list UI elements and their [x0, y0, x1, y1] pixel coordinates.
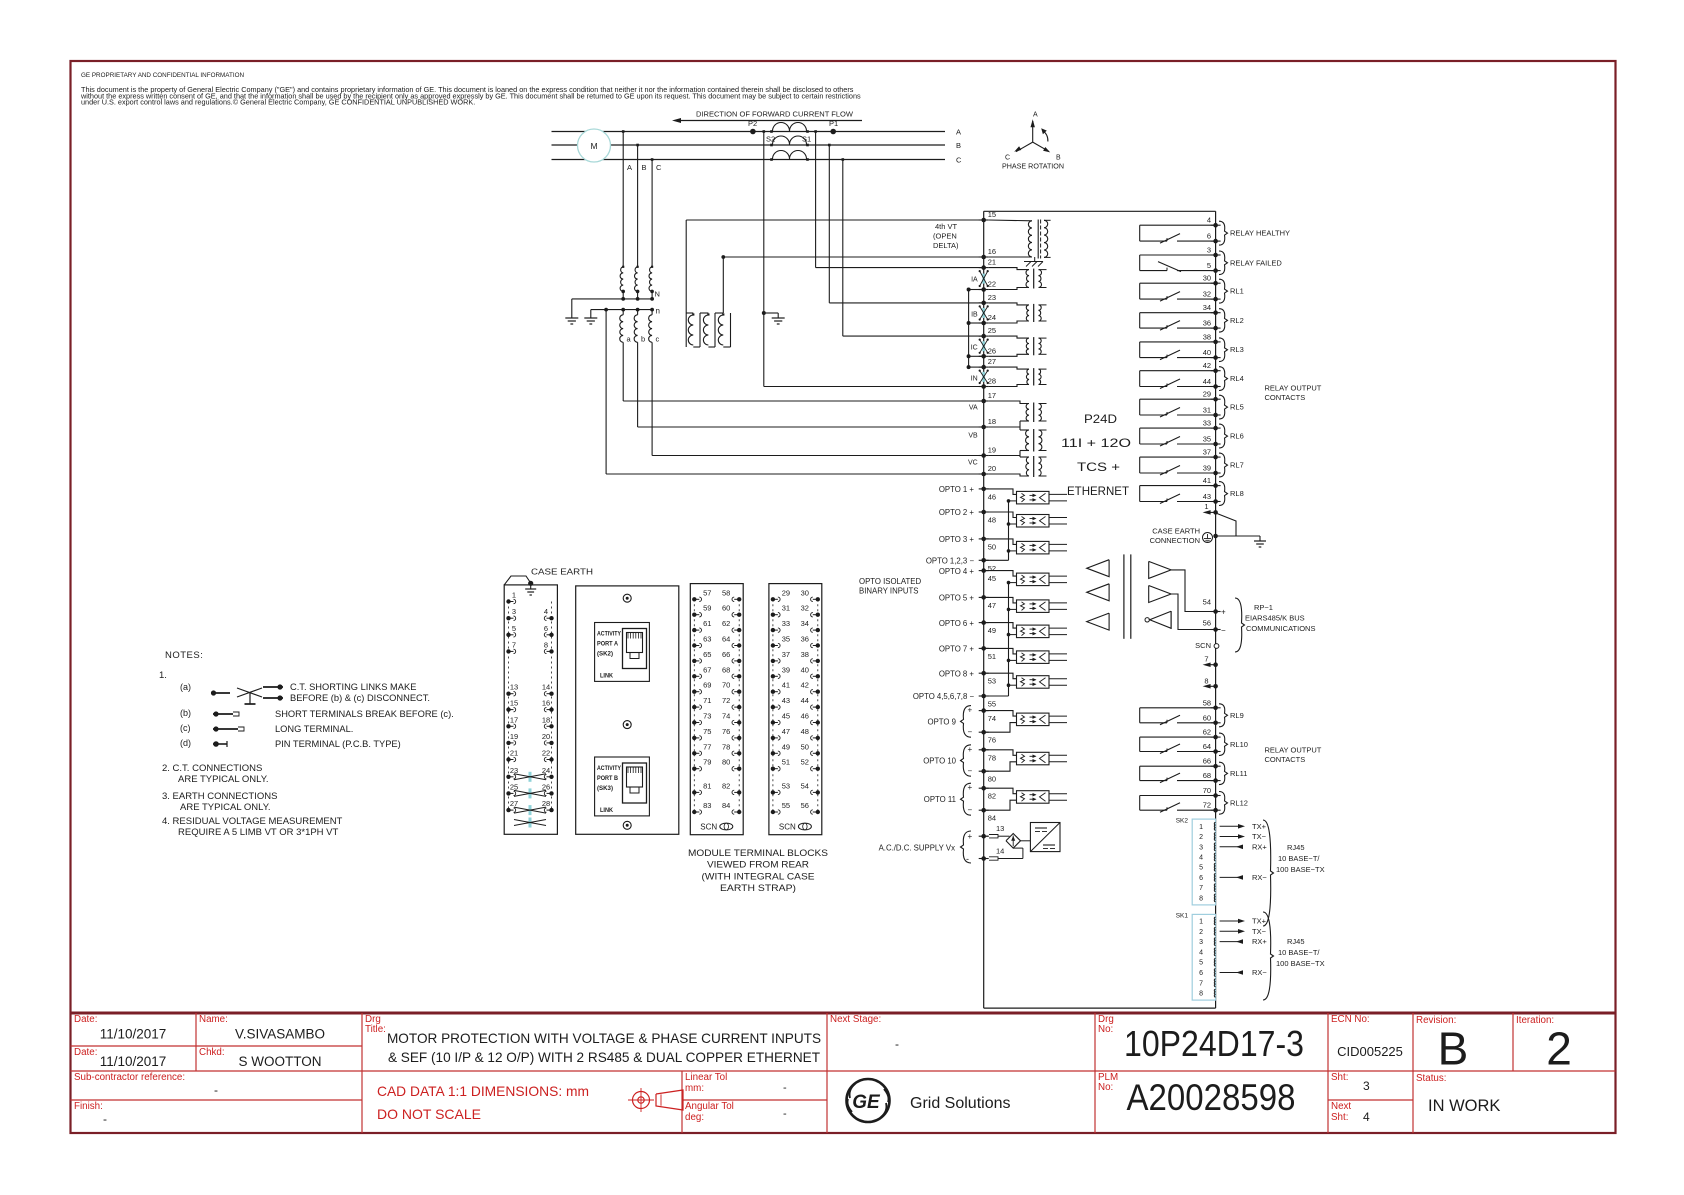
svg-text:31: 31 — [782, 604, 790, 613]
svg-text:46: 46 — [801, 712, 809, 721]
svg-text:SCN: SCN — [779, 823, 796, 832]
svg-text:ECN No:: ECN No: — [1331, 1014, 1370, 1025]
svg-text:CONNECTION: CONNECTION — [1150, 536, 1200, 545]
svg-text:Sub-contractor reference:: Sub-contractor reference: — [74, 1072, 185, 1083]
svg-text:71: 71 — [703, 696, 711, 705]
svg-text:-: - — [214, 1083, 218, 1097]
svg-text:7: 7 — [1199, 885, 1203, 892]
svg-text:Date:: Date: — [74, 1014, 97, 1025]
svg-text:8: 8 — [544, 640, 548, 649]
svg-text:3: 3 — [1363, 1079, 1370, 1093]
svg-text:61: 61 — [703, 619, 711, 628]
svg-text:C: C — [956, 156, 962, 165]
svg-text:Linear Tol: Linear Tol — [685, 1072, 727, 1083]
svg-text:−: − — [968, 728, 973, 737]
svg-text:SK2: SK2 — [1176, 818, 1189, 825]
svg-text:30: 30 — [1203, 274, 1211, 283]
svg-text:33: 33 — [782, 619, 790, 628]
svg-text:1: 1 — [1199, 919, 1203, 926]
svg-text:10 BASE−T/: 10 BASE−T/ — [1278, 948, 1320, 957]
svg-text:49: 49 — [988, 626, 996, 635]
svg-text:deg:: deg: — [685, 1112, 704, 1123]
svg-text:VA: VA — [969, 405, 978, 412]
svg-text:13: 13 — [996, 824, 1004, 833]
svg-text:21: 21 — [988, 258, 996, 267]
svg-text:63: 63 — [703, 635, 711, 644]
svg-text:48: 48 — [988, 516, 996, 525]
svg-text:64: 64 — [722, 635, 730, 644]
svg-text:GE: GE — [852, 1092, 881, 1113]
svg-text:RX+: RX+ — [1252, 842, 1267, 851]
svg-text:5: 5 — [1207, 261, 1211, 270]
svg-text:24: 24 — [542, 766, 550, 775]
svg-text:29: 29 — [1203, 390, 1211, 399]
svg-text:68: 68 — [722, 665, 730, 674]
svg-text:Date:: Date: — [74, 1047, 97, 1058]
svg-text:(c): (c) — [180, 723, 191, 733]
svg-text:Grid Solutions: Grid Solutions — [910, 1095, 1011, 1112]
svg-text:EARTH STRAP): EARTH STRAP) — [720, 883, 796, 893]
svg-text:66: 66 — [1203, 757, 1211, 766]
svg-text:3. EARTH CONNECTIONS: 3. EARTH CONNECTIONS — [162, 791, 277, 802]
svg-text:50: 50 — [988, 542, 996, 551]
svg-text:4: 4 — [1199, 855, 1203, 862]
svg-text:B: B — [642, 163, 647, 172]
svg-text:RL5: RL5 — [1230, 403, 1244, 412]
svg-text:33: 33 — [1203, 419, 1211, 428]
svg-text:−: − — [968, 806, 973, 815]
svg-text:OPTO 1,2,3 −: OPTO 1,2,3 − — [926, 557, 975, 566]
svg-text:SK1: SK1 — [1176, 913, 1189, 920]
svg-text:16: 16 — [542, 699, 550, 708]
svg-text:2: 2 — [1546, 1023, 1572, 1075]
svg-text:40: 40 — [1203, 348, 1211, 357]
svg-text:RL4: RL4 — [1230, 374, 1244, 383]
svg-text:34: 34 — [1203, 303, 1211, 312]
svg-text:54: 54 — [801, 781, 809, 790]
svg-text:B: B — [1438, 1023, 1469, 1075]
svg-text:RL2: RL2 — [1230, 316, 1244, 325]
svg-text:80: 80 — [722, 758, 730, 767]
svg-text:60: 60 — [722, 604, 730, 613]
svg-text:84: 84 — [988, 814, 996, 823]
svg-text:S WOOTTON: S WOOTTON — [239, 1054, 322, 1069]
svg-text:b: b — [641, 335, 645, 344]
svg-text:6: 6 — [544, 624, 548, 633]
svg-text:76: 76 — [722, 727, 730, 736]
svg-text:CONTACTS: CONTACTS — [1265, 393, 1306, 402]
svg-text:31: 31 — [1203, 406, 1211, 415]
svg-text:CASE EARTH: CASE EARTH — [531, 567, 593, 577]
svg-text:62: 62 — [1203, 728, 1211, 737]
svg-text:LONG TERMINAL.: LONG TERMINAL. — [275, 724, 353, 734]
svg-text:RJ45: RJ45 — [1287, 937, 1305, 946]
svg-text:15: 15 — [988, 210, 996, 219]
svg-text:3: 3 — [1199, 939, 1203, 946]
svg-text:38: 38 — [1203, 332, 1211, 341]
svg-text:16: 16 — [988, 247, 996, 256]
svg-text:A: A — [627, 163, 632, 172]
svg-text:IB: IB — [971, 312, 978, 319]
svg-text:45: 45 — [988, 574, 996, 583]
svg-text:Sht:: Sht: — [1331, 1112, 1348, 1123]
svg-text:35: 35 — [782, 635, 790, 644]
svg-text:76: 76 — [988, 736, 996, 745]
svg-text:43: 43 — [1203, 492, 1211, 501]
svg-text:22: 22 — [988, 280, 996, 289]
svg-text:P24D: P24D — [1084, 412, 1117, 426]
svg-text:A: A — [956, 128, 961, 137]
svg-text:OPTO 9: OPTO 9 — [928, 717, 956, 726]
svg-text:Next Stage:: Next Stage: — [830, 1014, 881, 1025]
svg-text:CID005225: CID005225 — [1337, 1044, 1403, 1059]
svg-text:+: + — [1221, 608, 1226, 617]
svg-text:82: 82 — [988, 792, 996, 801]
svg-text:5: 5 — [1199, 865, 1203, 872]
svg-text:No:: No: — [1098, 1024, 1113, 1035]
svg-text:V.SIVASAMBO: V.SIVASAMBO — [235, 1027, 325, 1042]
svg-text:n: n — [656, 307, 660, 316]
svg-text:(a): (a) — [180, 682, 191, 692]
svg-text:10 BASE−T/: 10 BASE−T/ — [1278, 854, 1320, 863]
svg-text:Sht:: Sht: — [1331, 1072, 1348, 1083]
svg-text:41: 41 — [1203, 476, 1211, 485]
svg-text:56: 56 — [1203, 619, 1211, 628]
svg-text:1: 1 — [1204, 502, 1208, 511]
svg-text:8: 8 — [1199, 991, 1203, 998]
svg-text:RELAY FAILED: RELAY FAILED — [1230, 258, 1282, 267]
svg-text:C: C — [1005, 155, 1010, 162]
svg-text:57: 57 — [703, 588, 711, 597]
svg-text:78: 78 — [988, 753, 996, 762]
svg-text:TCS +: TCS + — [1077, 460, 1120, 474]
svg-text:52: 52 — [801, 758, 809, 767]
svg-text:1: 1 — [1199, 824, 1203, 831]
svg-text:23: 23 — [510, 766, 518, 775]
svg-text:CONTACTS: CONTACTS — [1265, 755, 1306, 764]
svg-text:50: 50 — [801, 742, 809, 751]
svg-text:79: 79 — [703, 758, 711, 767]
svg-text:RL8: RL8 — [1230, 489, 1244, 498]
svg-text:20: 20 — [988, 464, 996, 473]
svg-text:TX+: TX+ — [1252, 822, 1267, 831]
svg-text:2: 2 — [1199, 929, 1203, 936]
svg-text:COMMUNICATIONS: COMMUNICATIONS — [1246, 624, 1315, 633]
svg-text:OPTO 2 +: OPTO 2 + — [939, 508, 975, 517]
svg-text:RX−: RX− — [1252, 968, 1267, 977]
svg-text:6: 6 — [1199, 970, 1203, 977]
svg-text:(OPEN: (OPEN — [933, 232, 957, 241]
svg-text:MODULE TERMINAL BLOCKS: MODULE TERMINAL BLOCKS — [688, 848, 828, 858]
svg-text:-: - — [966, 854, 969, 864]
svg-text:Name:: Name: — [199, 1014, 228, 1025]
svg-text:52: 52 — [988, 564, 996, 573]
svg-text:3: 3 — [512, 607, 516, 616]
svg-text:1.: 1. — [159, 670, 167, 681]
svg-text:39: 39 — [1203, 464, 1211, 473]
svg-text:RL3: RL3 — [1230, 345, 1244, 354]
svg-text:Finish:: Finish: — [74, 1101, 103, 1112]
svg-text:26: 26 — [542, 782, 550, 791]
svg-text:70: 70 — [722, 681, 730, 690]
svg-text:51: 51 — [782, 758, 790, 767]
svg-text:N: N — [655, 290, 660, 299]
svg-text:67: 67 — [703, 665, 711, 674]
svg-text:RL1: RL1 — [1230, 287, 1244, 296]
svg-text:19: 19 — [510, 732, 518, 741]
svg-text:(d): (d) — [180, 738, 191, 748]
svg-text:OPTO 7 +: OPTO 7 + — [939, 645, 975, 654]
svg-text:22: 22 — [542, 749, 550, 758]
svg-text:4: 4 — [1363, 1110, 1370, 1124]
svg-text:& SEF (10 I/P & 12 O/P) WITH 2: & SEF (10 I/P & 12 O/P) WITH 2 RS485 & D… — [388, 1050, 820, 1065]
svg-text:PORT A: PORT A — [597, 642, 619, 648]
svg-text:49: 49 — [782, 742, 790, 751]
svg-text:TX+: TX+ — [1252, 917, 1267, 926]
svg-text:7: 7 — [512, 640, 516, 649]
svg-text:-: - — [103, 1112, 107, 1126]
svg-text:4: 4 — [1199, 949, 1203, 956]
svg-text:CAD DATA 1:1 DIMENSIONS: mm: CAD DATA 1:1 DIMENSIONS: mm — [377, 1083, 589, 1099]
svg-text:48: 48 — [801, 727, 809, 736]
svg-text:SHORT TERMINALS BREAK BEFORE (: SHORT TERMINALS BREAK BEFORE (c). — [275, 709, 454, 719]
svg-text:5: 5 — [1199, 960, 1203, 967]
svg-text:15: 15 — [510, 699, 518, 708]
svg-text:C.T. SHORTING LINKS MAKE: C.T. SHORTING LINKS MAKE — [290, 682, 416, 692]
svg-text:6: 6 — [1199, 875, 1203, 882]
svg-text:S2: S2 — [766, 135, 775, 144]
svg-text:OPTO 6 +: OPTO 6 + — [939, 619, 975, 628]
svg-text:4. RESIDUAL VOLTAGE MEASURE: 4. RESIDUAL VOLTAGE MEASUREMENT — [162, 816, 343, 827]
svg-text:RX+: RX+ — [1252, 937, 1267, 946]
svg-text:68: 68 — [1203, 771, 1211, 780]
svg-text:−: − — [968, 767, 973, 776]
svg-text:4: 4 — [1207, 216, 1211, 225]
svg-text:26: 26 — [988, 346, 996, 355]
svg-text:59: 59 — [703, 604, 711, 613]
svg-text:VIEWED FROM REAR: VIEWED FROM REAR — [707, 860, 809, 870]
svg-text:SCN: SCN — [1195, 641, 1211, 650]
svg-text:OPTO 4 +: OPTO 4 + — [939, 567, 975, 576]
svg-text:21: 21 — [510, 749, 518, 758]
svg-text:13: 13 — [510, 683, 518, 692]
svg-text:55: 55 — [782, 801, 790, 810]
svg-text:BINARY INPUTS: BINARY INPUTS — [859, 587, 919, 596]
svg-text:Angular Tol: Angular Tol — [685, 1101, 734, 1112]
svg-text:24: 24 — [988, 313, 996, 322]
svg-text:80: 80 — [988, 775, 996, 784]
svg-text:43: 43 — [782, 696, 790, 705]
svg-text:11/10/2017: 11/10/2017 — [100, 1027, 167, 1042]
svg-text:8: 8 — [1199, 895, 1203, 902]
svg-text:RP−1: RP−1 — [1254, 603, 1273, 612]
svg-text:B: B — [956, 141, 961, 150]
svg-text:BEFORE (b) & (c) DISCONNECT.: BEFORE (b) & (c) DISCONNECT. — [290, 693, 430, 703]
svg-text:19: 19 — [988, 446, 996, 455]
svg-text:60: 60 — [1203, 713, 1211, 722]
svg-text:53: 53 — [782, 781, 790, 790]
svg-text:Status:: Status: — [1416, 1073, 1447, 1084]
svg-text:29: 29 — [782, 588, 790, 597]
svg-text:5: 5 — [512, 624, 516, 633]
svg-text:C: C — [656, 163, 662, 172]
svg-text:VC: VC — [968, 460, 978, 467]
svg-text:14: 14 — [542, 683, 550, 692]
svg-text:4th VT: 4th VT — [935, 222, 958, 231]
svg-text:39: 39 — [782, 665, 790, 674]
svg-text:25: 25 — [988, 326, 996, 335]
svg-text:OPTO 11: OPTO 11 — [924, 795, 956, 804]
svg-text:77: 77 — [703, 742, 711, 751]
svg-text:3: 3 — [1199, 844, 1203, 851]
svg-text:18: 18 — [988, 417, 996, 426]
svg-text:RL10: RL10 — [1230, 740, 1248, 749]
svg-text:RL9: RL9 — [1230, 711, 1244, 720]
svg-text:IA: IA — [971, 277, 978, 284]
svg-text:Title:: Title: — [365, 1024, 386, 1035]
svg-text:17: 17 — [510, 715, 518, 724]
svg-text:2. C.T. CONNECTIONS: 2. C.T. CONNECTIONS — [162, 763, 262, 774]
svg-text:IN: IN — [971, 376, 978, 383]
svg-text:34: 34 — [801, 619, 809, 628]
svg-text:27: 27 — [988, 357, 996, 366]
svg-text:20: 20 — [542, 732, 550, 741]
svg-text:81: 81 — [703, 781, 711, 790]
svg-text:32: 32 — [1203, 290, 1211, 299]
svg-text:RJ45: RJ45 — [1287, 843, 1305, 852]
svg-text:18: 18 — [542, 715, 550, 724]
svg-text:8: 8 — [1204, 676, 1208, 685]
svg-text:38: 38 — [801, 650, 809, 659]
svg-text:53: 53 — [988, 677, 996, 686]
svg-text:44: 44 — [801, 696, 809, 705]
svg-text:(WITH INTEGRAL CASE: (WITH INTEGRAL CASE — [702, 871, 815, 881]
svg-text:69: 69 — [703, 681, 711, 690]
svg-text:Next: Next — [1331, 1101, 1351, 1112]
svg-text:+: + — [968, 783, 973, 792]
svg-text:RL11: RL11 — [1230, 769, 1247, 778]
svg-text:ACTIVITY: ACTIVITY — [597, 632, 621, 638]
svg-text:14: 14 — [996, 847, 1004, 856]
svg-text:36: 36 — [1203, 319, 1211, 328]
svg-text:PHASE ROTATION: PHASE ROTATION — [1002, 164, 1064, 171]
svg-text:IC: IC — [971, 345, 978, 352]
svg-text:No:: No: — [1098, 1082, 1113, 1093]
svg-text:OPTO 8 +: OPTO 8 + — [939, 669, 975, 678]
svg-text:DELTA): DELTA) — [933, 241, 959, 250]
svg-text:10P24D17-3: 10P24D17-3 — [1124, 1023, 1304, 1064]
svg-text:56: 56 — [801, 801, 809, 810]
svg-text:28: 28 — [542, 799, 550, 808]
svg-text:17: 17 — [988, 391, 996, 400]
svg-text:51: 51 — [988, 652, 996, 661]
svg-text:mm:: mm: — [685, 1083, 704, 1094]
svg-text:RL7: RL7 — [1230, 461, 1244, 470]
svg-text:S1: S1 — [802, 135, 811, 144]
svg-text:VB: VB — [968, 433, 978, 440]
svg-text:78: 78 — [722, 742, 730, 751]
svg-text:74: 74 — [988, 714, 996, 723]
svg-text:100 BASE−TX: 100 BASE−TX — [1276, 865, 1325, 874]
svg-text:30: 30 — [801, 588, 809, 597]
svg-text:28: 28 — [988, 377, 996, 386]
svg-text:RL12: RL12 — [1230, 798, 1248, 807]
svg-text:58: 58 — [722, 588, 730, 597]
svg-text:-: - — [895, 1037, 899, 1051]
svg-text:(b): (b) — [180, 708, 191, 718]
svg-text:REQUIRE A 5 LIMB VT OR 3: REQUIRE A 5 LIMB VT OR 3*1PH VT — [178, 827, 339, 838]
svg-text:RELAY HEALTHY: RELAY HEALTHY — [1230, 229, 1290, 238]
svg-text:62: 62 — [722, 619, 730, 628]
svg-text:(SK3): (SK3) — [597, 786, 613, 792]
svg-text:SCN: SCN — [700, 823, 717, 832]
svg-text:55: 55 — [988, 700, 996, 709]
svg-text:41: 41 — [782, 681, 790, 690]
svg-text:37: 37 — [782, 650, 790, 659]
svg-text:OPTO 5 +: OPTO 5 + — [939, 594, 975, 603]
svg-text:OPTO ISOLATED: OPTO ISOLATED — [859, 577, 921, 586]
svg-text:EIARS485/K BUS: EIARS485/K BUS — [1245, 614, 1305, 623]
svg-text:1: 1 — [512, 591, 516, 600]
svg-text:7: 7 — [1204, 655, 1208, 664]
svg-text:TX−: TX− — [1252, 832, 1267, 841]
svg-text:CASE EARTH: CASE EARTH — [1152, 527, 1200, 536]
svg-text:LINK: LINK — [600, 808, 614, 814]
svg-text:DO NOT SCALE: DO NOT SCALE — [377, 1106, 481, 1122]
svg-text:46: 46 — [988, 492, 996, 501]
svg-text:7: 7 — [1199, 980, 1203, 987]
svg-text:42: 42 — [1203, 361, 1211, 370]
svg-text:under U.S. export control laws: under U.S. export control laws and regul… — [81, 98, 475, 107]
svg-text:83: 83 — [703, 801, 711, 810]
svg-text:65: 65 — [703, 650, 711, 659]
svg-text:73: 73 — [703, 712, 711, 721]
svg-text:OPTO 3 +: OPTO 3 + — [939, 535, 975, 544]
svg-text:-: - — [783, 1108, 787, 1120]
svg-text:35: 35 — [1203, 435, 1211, 444]
svg-text:P1: P1 — [829, 119, 838, 128]
svg-text:75: 75 — [703, 727, 711, 736]
svg-text:OPTO 4,5,6,7,8 −: OPTO 4,5,6,7,8 − — [913, 692, 975, 701]
svg-text:72: 72 — [722, 696, 730, 705]
svg-text:−: − — [1221, 626, 1226, 635]
svg-text:70: 70 — [1203, 786, 1211, 795]
svg-text:OPTO 10: OPTO 10 — [923, 757, 956, 766]
svg-text:A.C./D.C. SUPPLY Vx: A.C./D.C. SUPPLY Vx — [879, 844, 956, 853]
svg-text:-: - — [783, 1082, 787, 1094]
svg-text:IN WORK: IN WORK — [1428, 1097, 1500, 1115]
svg-text:32: 32 — [801, 604, 809, 613]
svg-text:27: 27 — [510, 799, 518, 808]
svg-text:58: 58 — [1203, 698, 1211, 707]
svg-text:100 BASE−TX: 100 BASE−TX — [1276, 959, 1325, 968]
svg-text:42: 42 — [801, 681, 809, 690]
svg-text:54: 54 — [1203, 598, 1211, 607]
svg-text:ACTIVITY: ACTIVITY — [597, 766, 621, 772]
svg-text:RL6: RL6 — [1230, 432, 1244, 441]
svg-text:6: 6 — [1207, 232, 1211, 241]
svg-text:+: + — [968, 745, 973, 754]
svg-text:MOTOR PROTECTION WITH VOLTAGE: MOTOR PROTECTION WITH VOLTAGE & PHASE CU… — [387, 1031, 821, 1046]
svg-text:(SK2): (SK2) — [597, 652, 613, 658]
svg-text:NOTES:: NOTES: — [165, 650, 203, 661]
svg-text:82: 82 — [722, 781, 730, 790]
svg-text:c: c — [656, 335, 660, 344]
svg-text:RX−: RX− — [1252, 873, 1267, 882]
svg-text:PIN TERMINAL (P.C.B. TYPE): PIN TERMINAL (P.C.B. TYPE) — [275, 739, 401, 749]
svg-text:RELAY OUTPUT: RELAY OUTPUT — [1265, 746, 1322, 755]
svg-text:ARE TYPICAL ONLY.: ARE TYPICAL ONLY. — [180, 802, 270, 813]
